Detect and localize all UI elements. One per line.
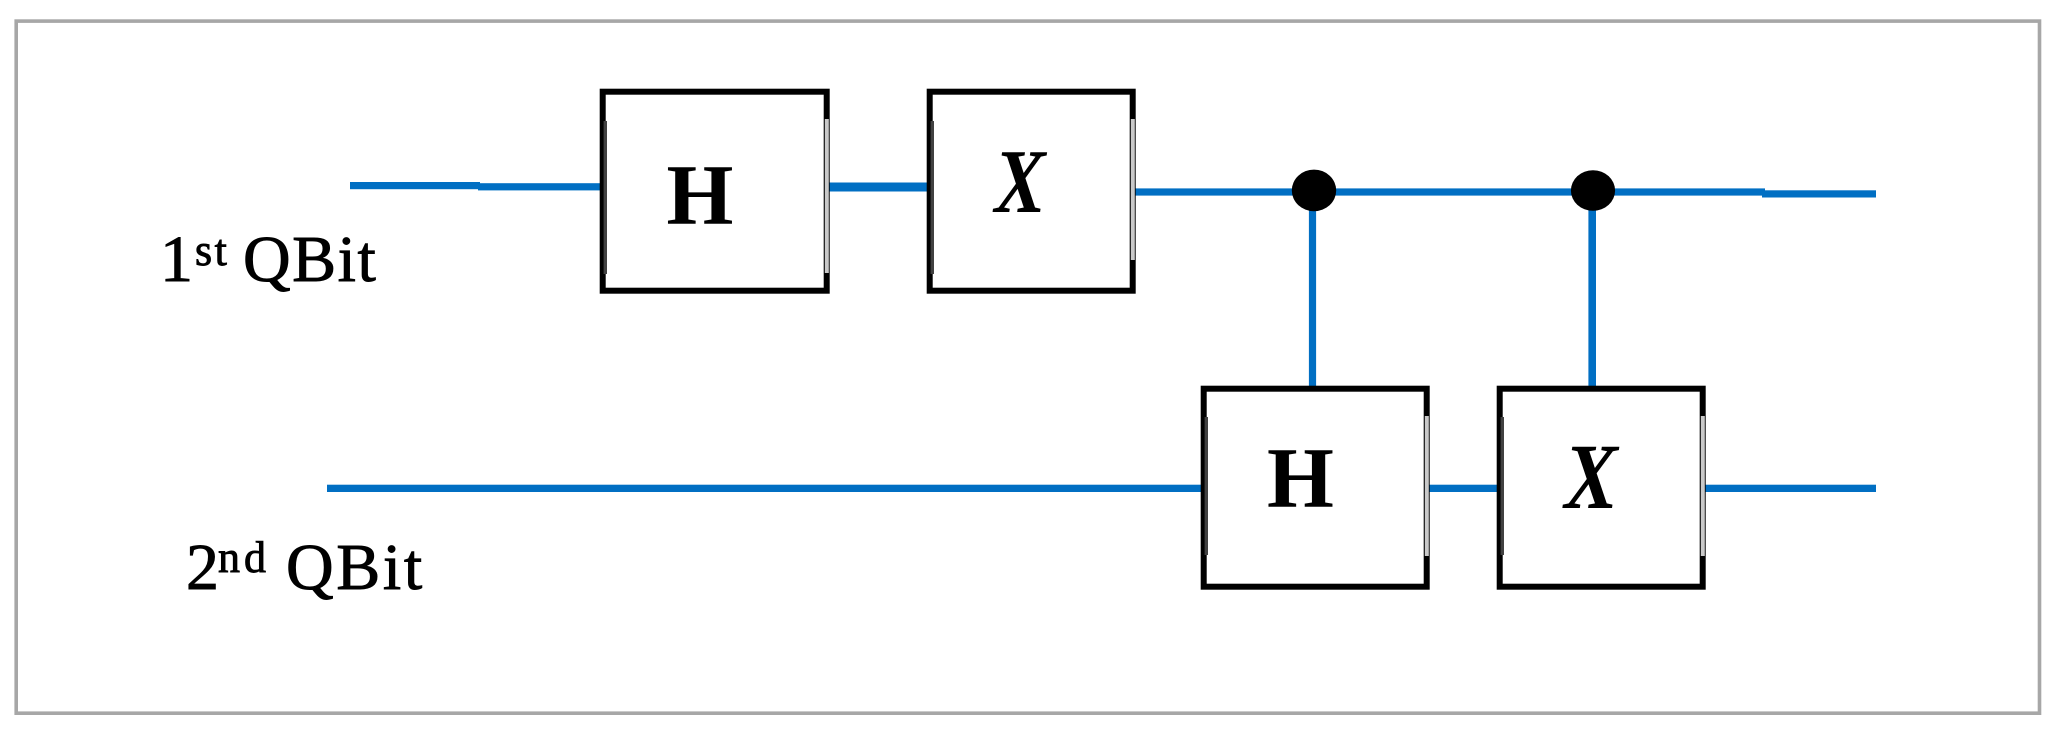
gate H on qubit 2 label — [1267, 430, 1334, 526]
svg-text:X: X — [992, 132, 1048, 232]
wire qubit1 segment B — [478, 183, 602, 190]
gate X on qubit 1 (box) — [930, 92, 1133, 291]
svg-text:1: 1 — [160, 223, 193, 296]
svg-text:H: H — [1267, 430, 1334, 526]
gate H on qubit 1 (box) — [603, 92, 827, 291]
control wire 1 (vertical) — [1309, 190, 1316, 387]
svg-text:QBit: QBit — [286, 531, 425, 604]
control dot 1 — [1292, 170, 1336, 212]
wire qubit2 segment between H and X — [1428, 485, 1499, 492]
svg-text:2: 2 — [186, 531, 219, 604]
wire qubit2 left segment — [327, 485, 1204, 492]
gate H on qubit 2 (box) — [1204, 389, 1427, 587]
wire qubit1 segment between H and X — [829, 183, 929, 192]
label "2nd QBit" — [186, 531, 425, 604]
control wire 2 (vertical) — [1588, 190, 1596, 387]
svg-text:H: H — [667, 146, 734, 242]
gate X on qubit 2 (box) — [1500, 389, 1703, 587]
wire qubit1 right end segment — [1762, 190, 1876, 197]
svg-text:QBit: QBit — [243, 223, 377, 296]
svg-text:st: st — [195, 226, 229, 275]
wire qubit1 segment after X to second dot — [1135, 188, 1765, 195]
label "1st QBit" — [160, 223, 377, 296]
control dot 2 — [1571, 170, 1615, 211]
gate H on qubit 1 label — [667, 146, 734, 242]
wire qubit1 segment A — [350, 182, 480, 189]
svg-text:X: X — [1562, 424, 1620, 528]
gate X on qubit 1 label — [992, 132, 1048, 232]
wire qubit2 right segment — [1704, 485, 1876, 492]
svg-text:nd: nd — [218, 533, 270, 582]
gate X on qubit 2 label — [1562, 424, 1620, 528]
